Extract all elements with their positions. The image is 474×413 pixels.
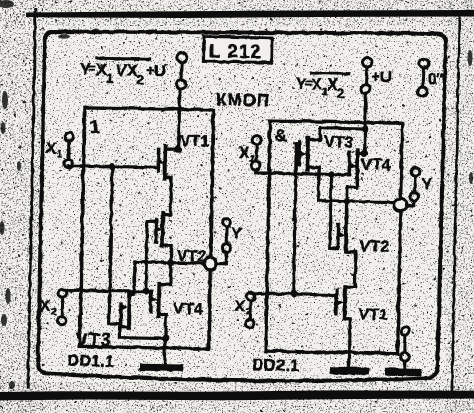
gate box & (DD2.1) [265,120,402,353]
outer page border left line [27,9,35,387]
terminal X1 left [64,132,73,167]
wire +U supply left [178,89,179,150]
svg-text:2: 2 [135,71,143,86]
wire X1 to VT2 gate [329,174,338,248]
outer page border bottom band [0,390,474,400]
junction output VT4/VT2 [343,197,350,204]
outer page border top band [26,10,474,18]
svg-text:X: X [234,297,245,314]
transistor VT1 right [335,286,350,367]
svg-text:VT3: VT3 [75,329,111,350]
wire +U supply right [364,93,365,153]
wire VT3 drain riser [129,261,135,293]
terminal 0" [417,58,428,95]
svg-text:2: 2 [245,306,251,317]
wire node to Y terminal right [406,200,414,205]
svg-text:X: X [238,145,249,162]
junction VT3/VT4 source [161,334,168,341]
svg-text:DD2.1: DD2.1 [252,356,299,374]
svg-text:1: 1 [249,153,255,164]
svg-text:Y: Y [231,225,242,242]
junction X1 branch [327,170,334,177]
ground right circuit [333,366,365,374]
svg-text:0″: 0″ [427,70,444,87]
svg-text:1: 1 [56,148,62,159]
svg-text:1: 1 [105,71,112,85]
ground left circuit [143,363,179,371]
svg-text:X: X [39,298,50,315]
transistor VT1 left [155,145,177,214]
node output circle right [394,198,407,211]
label X1 left [45,140,63,160]
wire VT2 gate drop [145,221,155,291]
formula right: Y = not(X1X2) [295,75,345,100]
transistor VT2 right [336,218,355,286]
wire source rail right [307,127,364,140]
svg-text:V: V [115,61,126,79]
junction output-VT2/VT4 [167,259,174,266]
terminal Y right [409,167,418,200]
terminal +U left [176,52,187,88]
svg-text:DD1.1: DD1.1 [67,352,114,370]
junction X2 riser [289,290,296,297]
svg-text:+U: +U [370,68,391,85]
svg-text:VT1: VT1 [358,306,388,324]
label X1 right [238,145,256,165]
wire X2 left [62,290,150,292]
transistor VT4 left [149,283,166,364]
junction supply rail right [361,124,368,131]
transistor VT3 right [298,137,319,200]
label X2 left [39,298,57,318]
svg-text:VT3: VT3 [323,133,353,151]
formula left: Y = not(X1 v X2) [79,60,165,87]
wire output right [318,200,394,202]
junction X2-VT2gate [142,287,149,294]
svg-text:1: 1 [89,116,101,138]
svg-text:&: & [274,125,287,144]
terminal +U right [360,57,371,93]
svg-text:U: U [153,62,165,80]
transistor VT3 left [119,291,166,338]
svg-text:VT4: VT4 [173,300,203,318]
svg-text:2: 2 [50,306,56,317]
junction X1 [108,162,115,169]
node output circle left [203,257,216,270]
gate box 1 (DD1.1) [79,107,213,349]
svg-text:=: = [88,61,95,75]
svg-text:КМОП: КМОП [215,90,269,110]
ground bottom right terminal [388,367,418,375]
terminal Y left [221,218,230,252]
svg-text:VT1: VT1 [179,132,209,150]
wire X1 left [68,165,158,167]
svg-text:VT4: VT4 [361,156,391,174]
svg-text:Y: Y [421,176,432,193]
junction VT3 source corner [317,136,322,141]
terminal X2 right [245,292,254,327]
wire node to Y terminal left [216,252,226,264]
overline right formula [311,71,348,75]
overline left formula [97,57,149,58]
transistor VT4 right [346,149,364,218]
terminal 0V bottom right [400,327,410,369]
junction supply-VT1 [174,146,181,153]
terminal X2 left [57,289,66,324]
svg-text:VT2: VT2 [359,237,389,255]
outer page border right line [451,17,459,396]
label box L212 [203,36,271,63]
wire VT4 drain riser [158,262,170,284]
wire X1 right [255,172,349,174]
label X2 right [234,297,252,317]
transistor VT2 left [153,212,171,262]
svg-text:X: X [45,140,56,157]
wire X1 to VT3 gate [109,166,124,324]
wire X2 riser to VT3 gate [293,143,299,293]
wire X2 right [251,293,336,295]
svg-text:L 212: L 212 [208,40,262,62]
svg-text:2: 2 [337,85,345,100]
junction supply VT4 [361,149,368,156]
terminal X1 right [251,135,260,169]
wire output left [134,261,203,262]
schematic frame [37,31,445,380]
